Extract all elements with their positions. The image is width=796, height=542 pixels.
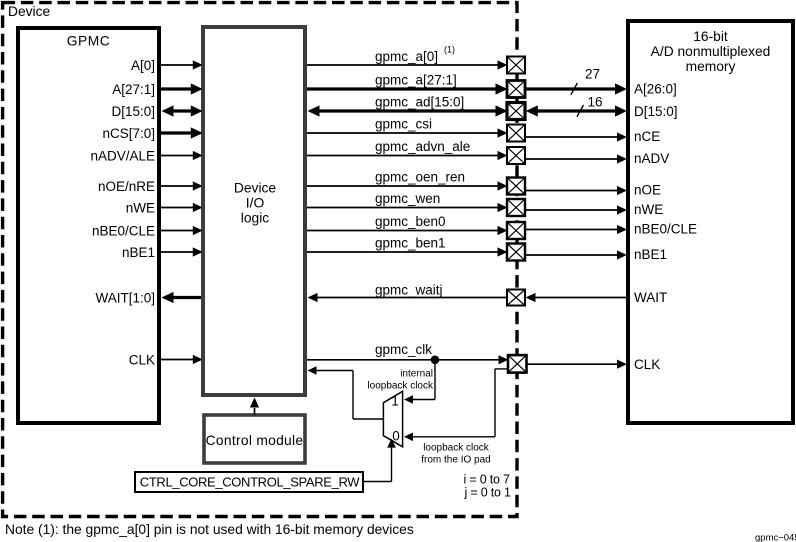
svg-text:nADV/ALE: nADV/ALE [90, 148, 155, 163]
svg-text:16-bit: 16-bit [693, 29, 728, 44]
control module block [204, 415, 305, 463]
IO cell gpmc_oen_ren [507, 178, 525, 195]
svg-text:WAIT[1:0]: WAIT[1:0] [95, 290, 155, 305]
wire gpmc_clk from I/O logic to clock IO cell [307, 359, 499, 361]
wire internal loopback: junction down to mux input 1 [434, 360, 436, 400]
svg-text:nWE: nWE [126, 200, 155, 215]
Device I/O logic block [203, 27, 305, 395]
svg-text:CLK: CLK [634, 357, 660, 372]
GPMC block [18, 28, 159, 423]
svg-text:A/D nonmultiplexed: A/D nonmultiplexed [651, 44, 771, 59]
svg-text:WAIT: WAIT [634, 290, 667, 305]
bus width slash 27 [571, 83, 578, 95]
wire nCS[7:0] bus from GPMC to I/O logic [161, 131, 192, 134]
svg-text:CTRL_CORE_CONTROL_SPARE_RW: CTRL_CORE_CONTROL_SPARE_RW [140, 475, 360, 490]
wire gpmc_ad[15:0] bidirectional bus between I/O logic and IO cell [317, 109, 497, 112]
16-bit A/D nonmultiplexed memory block [628, 21, 793, 423]
wire gpmc_waitj from IO cell to I/O logic [316, 297, 507, 299]
svg-text:loopback clock: loopback clock [367, 381, 434, 392]
svg-text:gpmc_a[27:1]: gpmc_a[27:1] [375, 73, 457, 88]
svg-text:nBE1: nBE1 [122, 245, 155, 260]
IO cell gpmc_ad[15:0] [507, 103, 525, 120]
svg-text:A[26:0]: A[26:0] [634, 81, 677, 96]
IO cell gpmc_clk [508, 355, 527, 373]
wire mux select from CTRL_CORE_CONTROL_SPARE_RW [363, 481, 392, 483]
wire nBE1 from GPMC to I/O logic [161, 251, 194, 253]
svg-text:A[0]: A[0] [131, 58, 155, 73]
loopback mux [383, 391, 402, 447]
wire nADV/ALE from GPMC to I/O logic [161, 155, 194, 157]
svg-text:GPMC: GPMC [67, 34, 110, 49]
wire to memory nBE1 [525, 254, 619, 256]
wire gpmc_ben0 from I/O logic to IO cell [307, 230, 499, 232]
wire from memory WAIT to IO cell [534, 297, 626, 299]
IO cell gpmc_ben1 [507, 244, 525, 261]
wire to memory nBE0/CLE [525, 229, 619, 231]
device dashed boundary [3, 3, 517, 517]
svg-text:Note (1): the gpmc_a[0] pin is: Note (1): the gpmc_a[0] pin is not used … [5, 522, 414, 537]
svg-text:CLK: CLK [129, 352, 155, 367]
svg-text:logic: logic [241, 210, 269, 225]
svg-text:gpmc_csi: gpmc_csi [375, 117, 432, 132]
svg-text:0: 0 [392, 429, 400, 444]
svg-text:1: 1 [391, 394, 399, 409]
svg-text:memory: memory [686, 59, 736, 74]
CTRL_CORE_CONTROL_SPARE_RW register block [135, 472, 363, 492]
svg-text:27: 27 [585, 67, 600, 82]
svg-text:gpmc_oen_ren: gpmc_oen_ren [375, 170, 465, 185]
IO cell gpmc_waitj [507, 290, 525, 306]
svg-text:nOE: nOE [634, 183, 661, 198]
wire A[27:1] bus from GPMC to I/O logic [161, 87, 192, 90]
wire gpmc_advn_ale from I/O logic to IO cell [307, 155, 499, 157]
svg-text:nCE: nCE [634, 129, 660, 144]
wire nBE0/CLE from GPMC to I/O logic [161, 230, 194, 232]
svg-text:Device: Device [234, 180, 276, 195]
svg-text:i = 0 to 7: i = 0 to 7 [464, 473, 511, 487]
svg-text:nBE0/CLE: nBE0/CLE [92, 223, 155, 238]
svg-text:nWE: nWE [634, 202, 663, 217]
wire gpmc_wen from I/O logic to IO cell [307, 207, 499, 209]
wire D[15:0] bidirectional bus between GPMC and I/O logic [172, 109, 192, 112]
wire WAIT[1:0] bus from I/O logic to GPMC [171, 296, 201, 299]
bus wire gpmc_a to memory A[26:0] with width 27 [525, 87, 617, 90]
svg-text:A[27:1]: A[27:1] [112, 82, 155, 97]
wire gpmc_ben1 from I/O logic to IO cell [307, 251, 499, 253]
wire control module to I/O logic [254, 408, 256, 415]
IO cell gpmc_wen [507, 199, 525, 216]
svg-text:nCS[7:0]: nCS[7:0] [102, 126, 155, 141]
bidirectional bus wire gpmc_ad to memory D[15:0] with width 16 [534, 109, 617, 112]
wire to memory nCE [525, 136, 619, 138]
svg-text:internal: internal [400, 369, 433, 380]
svg-text:Control module: Control module [206, 433, 304, 448]
wire to memory nADV [525, 158, 619, 160]
svg-text:Device: Device [8, 4, 50, 19]
wire gpmc_csi from I/O logic to IO cell [307, 132, 499, 134]
svg-text:nBE0/CLE: nBE0/CLE [634, 222, 697, 237]
wire gpmc_a[27:1] bus from I/O logic to IO cell [307, 87, 497, 90]
svg-text:nOE/nRE: nOE/nRE [98, 179, 155, 194]
IO cell gpmc_ben0 [507, 222, 525, 239]
svg-text:j = 0 to 1: j = 0 to 1 [464, 486, 512, 500]
IO cell gpmc_csi [507, 125, 525, 142]
wire from clock IO cell to memory CLK [527, 363, 620, 365]
svg-text:gpmc−045: gpmc−045 [755, 533, 796, 542]
wire nOE/nRE from GPMC to I/O logic [161, 185, 194, 187]
svg-text:D[15:0]: D[15:0] [634, 104, 678, 119]
wire gpmc_oen_ren from I/O logic to IO cell [307, 185, 499, 187]
wire to memory nOE [525, 190, 619, 192]
bus width slash 16 [577, 105, 584, 117]
svg-text:gpmc_ben1: gpmc_ben1 [375, 236, 446, 251]
svg-text:gpmc_clk: gpmc_clk [375, 342, 432, 357]
svg-text:loopback clock: loopback clock [423, 443, 490, 454]
svg-text:gpmc_ad[15:0]: gpmc_ad[15:0] [375, 95, 464, 110]
svg-text:gpmc_ben0: gpmc_ben0 [375, 214, 446, 229]
wire nWE from GPMC to I/O logic [161, 207, 194, 209]
wire loopback clock from the IO pad: clock pad to mux input 0 [495, 368, 508, 370]
wire to memory nWE [525, 209, 619, 211]
wire A[0] from GPMC to I/O logic [161, 64, 194, 66]
svg-text:D[15:0]: D[15:0] [111, 104, 155, 119]
wire gpmc_a[0] from I/O logic to IO cell [307, 64, 499, 66]
svg-text:nBE1: nBE1 [634, 247, 667, 262]
svg-text:16: 16 [588, 95, 603, 110]
svg-text:(1): (1) [444, 45, 455, 55]
svg-text:gpmc_waitj: gpmc_waitj [375, 283, 443, 298]
IO cell gpmc_advn_ale [507, 147, 525, 164]
svg-text:gpmc_a[0]: gpmc_a[0] [375, 49, 438, 64]
IO cell gpmc_a[27:1] [507, 81, 525, 98]
svg-text:from the IO pad: from the IO pad [421, 455, 490, 466]
IO cell gpmc_a[0] [507, 57, 525, 74]
svg-text:nADV: nADV [634, 151, 669, 166]
svg-text:gpmc_wen: gpmc_wen [375, 191, 440, 206]
wire CLK from GPMC to I/O logic [161, 359, 194, 361]
wire mux output back into I/O logic [353, 418, 383, 420]
junction dot on gpmc_clk [431, 356, 440, 365]
svg-text:gpmc_advn_ale: gpmc_advn_ale [375, 139, 470, 154]
svg-text:I/O: I/O [246, 195, 265, 210]
